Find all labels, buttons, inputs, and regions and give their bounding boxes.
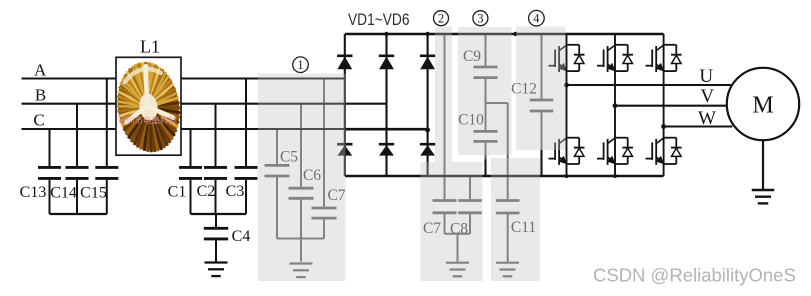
wire C1 bottom xyxy=(190,180,192,214)
wire rectifier column 1 xyxy=(344,34,346,176)
region marker 2 xyxy=(434,11,449,26)
svg-text:C6: C6 xyxy=(303,167,321,184)
wire C7 stem from line A xyxy=(323,79,325,207)
IGBT Q1 upper with diode (leg 1) xyxy=(549,45,585,72)
ground (C4, black) xyxy=(205,263,228,277)
wire midpoint tap xyxy=(486,102,508,104)
svg-text:C7: C7 xyxy=(327,187,345,204)
svg-text:V: V xyxy=(700,86,714,107)
wire C6 stem from line B xyxy=(300,104,302,187)
svg-text:C10: C10 xyxy=(458,112,484,129)
svg-text:C11: C11 xyxy=(511,219,536,236)
IGBT Q4 lower with diode (leg 2) xyxy=(597,138,633,165)
highlight band region 2 xyxy=(435,27,452,162)
capacitor C9 xyxy=(474,67,498,78)
junction dot leg2 / DC- bus xyxy=(613,174,617,178)
wire C8 stem from DC- bus xyxy=(469,176,471,199)
svg-text:M: M xyxy=(752,93,773,119)
highlight band region 3 xyxy=(458,27,512,155)
wire C9 stem from DC+ bus xyxy=(485,34,487,66)
capacitor C13 xyxy=(38,167,61,178)
ground (region 1, grey) xyxy=(290,264,313,278)
IGBT Q6 lower with diode (leg 3) xyxy=(646,138,682,165)
wire inverter leg 2 xyxy=(614,34,616,176)
svg-text:2: 2 xyxy=(438,12,444,26)
wire C7 lower xyxy=(444,214,446,234)
svg-text:W: W xyxy=(698,108,716,129)
svg-text:4: 4 xyxy=(533,12,540,26)
capacitor C3 xyxy=(235,167,258,178)
wire C14 stem from line B xyxy=(76,104,78,166)
capacitor C7 (region 1) xyxy=(312,208,337,218)
svg-text:C7: C7 xyxy=(423,220,441,237)
wire C9-C10 link xyxy=(485,79,487,130)
wire C11 to ground xyxy=(507,214,509,262)
svg-text:C1: C1 xyxy=(168,184,187,201)
IGBT Q2 lower with diode (leg 1) xyxy=(549,138,585,165)
wire C4 stem xyxy=(215,214,217,227)
node V junction dot xyxy=(613,103,618,108)
svg-text:C9: C9 xyxy=(463,48,481,65)
wire DC+ bus xyxy=(345,33,664,36)
wire C12 to DC- bus (black part) xyxy=(540,150,542,176)
diode VD1 (upper, column 1) xyxy=(337,56,352,69)
capacitor C4 xyxy=(204,228,228,239)
wire phase line B xyxy=(22,103,387,105)
ground (motor, black) xyxy=(752,190,775,203)
wire C13 stem from line C xyxy=(49,129,51,166)
capacitor C1 xyxy=(179,167,202,178)
capacitor C6 xyxy=(289,188,314,198)
wire region-1 bottom rail xyxy=(277,238,324,240)
wire phase line C (bridge segment) xyxy=(345,128,428,131)
svg-text:3: 3 xyxy=(477,12,483,26)
wire C1 stem from line C xyxy=(190,129,192,166)
wire C7 bottom xyxy=(323,219,325,238)
svg-text:C5: C5 xyxy=(280,149,298,166)
wire C2 stem from line B xyxy=(215,104,217,166)
region marker 3 xyxy=(473,11,488,26)
junction dot DC+ column 2 xyxy=(384,32,388,36)
wire C10 bottom (grey part) xyxy=(485,143,487,161)
highlight band bottom (C11) xyxy=(491,158,540,281)
junction dot line C / column 3 xyxy=(425,128,430,133)
wire to ground (C7/C8) xyxy=(457,234,459,262)
wire C3 bottom xyxy=(245,180,247,214)
svg-text:L1: L1 xyxy=(140,37,160,57)
capacitor C2 xyxy=(204,167,227,178)
svg-text:A: A xyxy=(34,61,47,80)
diode VD4 (lower, column 1) xyxy=(337,144,352,155)
region marker 1 xyxy=(293,57,309,73)
wire C7-C8 junction rail xyxy=(445,233,471,235)
node W junction dot xyxy=(661,124,666,129)
diode VD3 (upper, column 3) xyxy=(420,56,435,69)
common-mode choke L1 (photo) xyxy=(111,57,186,156)
ground (C11, grey) xyxy=(496,263,519,277)
wire output V xyxy=(615,105,727,107)
wire C3 stem from line A xyxy=(245,79,247,167)
junction dot leg1 / DC- bus xyxy=(565,174,569,178)
ground (C7/C8, grey) xyxy=(446,263,469,277)
capacitor C10 xyxy=(474,131,498,141)
wire C15 stem from line A xyxy=(106,79,108,167)
svg-text:C12: C12 xyxy=(511,81,537,98)
wire output U xyxy=(567,84,733,86)
motor M xyxy=(727,68,799,140)
svg-text:C: C xyxy=(33,111,44,130)
wire C2 bottom xyxy=(215,180,217,214)
capacitor C15 xyxy=(95,167,118,178)
wire C6 bottom to ground xyxy=(300,200,302,262)
highlight band region 1 xyxy=(258,74,346,282)
wire rectifier column 2 xyxy=(385,34,387,176)
wire C1-C3 bottom rail xyxy=(191,213,247,215)
wire C5 bottom xyxy=(276,177,278,238)
wire inverter leg 3 xyxy=(663,34,665,176)
svg-text:VD1~VD6: VD1~VD6 xyxy=(348,10,410,29)
band overlays (translucent) xyxy=(258,27,566,282)
svg-text:C3: C3 xyxy=(226,183,245,200)
svg-text:C15: C15 xyxy=(80,185,107,202)
svg-text:C14: C14 xyxy=(50,185,77,202)
wire phase line C xyxy=(22,128,345,130)
capacitor C12 xyxy=(530,100,554,111)
capacitor C8 xyxy=(458,201,482,213)
wire C7 feed from DC+ bus xyxy=(444,34,446,199)
capacitor C5 xyxy=(265,165,290,176)
svg-text:C13: C13 xyxy=(20,184,47,201)
svg-text:深圳市电巢科技: 深圳市电巢科技 xyxy=(118,116,178,126)
highlight band region 4 xyxy=(516,27,566,151)
wire C13-C15 bottom rail xyxy=(50,213,107,215)
capacitor C14 xyxy=(66,167,89,178)
IGBT Q3 upper with diode (leg 2) xyxy=(597,45,633,72)
wire DC- bus xyxy=(345,175,664,178)
wire C15 bottom xyxy=(106,180,108,214)
wire C12 stem from DC+ bus xyxy=(541,34,543,99)
capacitor C11 xyxy=(496,201,520,214)
wire output W xyxy=(664,125,733,127)
wire rectifier column 3 xyxy=(427,34,429,176)
wire C12 bottom (grey part) xyxy=(541,112,543,151)
svg-text:B: B xyxy=(35,86,46,105)
wire C13 bottom xyxy=(49,180,51,214)
capacitor C7 (bottom band) xyxy=(433,201,457,213)
diode VD5 (lower, column 2) xyxy=(379,144,394,155)
diode VD6 (lower, column 3) xyxy=(420,144,435,155)
wire C10 to DC- bus (black part) xyxy=(484,160,486,177)
IGBT Q5 upper with diode (leg 3) xyxy=(646,45,682,72)
svg-text:C4: C4 xyxy=(232,228,251,245)
wire C14 bottom xyxy=(76,180,78,214)
wire motor to ground xyxy=(762,140,764,189)
wire phase line A xyxy=(22,77,345,79)
svg-text:1: 1 xyxy=(297,58,303,72)
svg-text:CSDN @ReliabilityOneS: CSDN @ReliabilityOneS xyxy=(593,265,796,286)
wire C8 lower xyxy=(469,214,471,234)
wire inverter leg 1 xyxy=(566,34,568,176)
node U junction dot xyxy=(564,83,569,88)
junction dot DC+ column 3 xyxy=(425,32,429,36)
svg-text:C8: C8 xyxy=(450,221,468,238)
wire C4 to ground xyxy=(215,240,217,261)
diode VD2 (upper, column 2) xyxy=(379,56,394,69)
svg-text:C2: C2 xyxy=(197,183,216,200)
svg-text:U: U xyxy=(699,66,713,87)
region marker 4 xyxy=(529,10,545,26)
junction dot DC+ bus xyxy=(513,32,517,36)
highlight band bottom-left (C7 C8) xyxy=(421,162,483,281)
wire midpoint down to C11 xyxy=(507,103,509,199)
wire C5 stem from line C xyxy=(276,129,278,164)
